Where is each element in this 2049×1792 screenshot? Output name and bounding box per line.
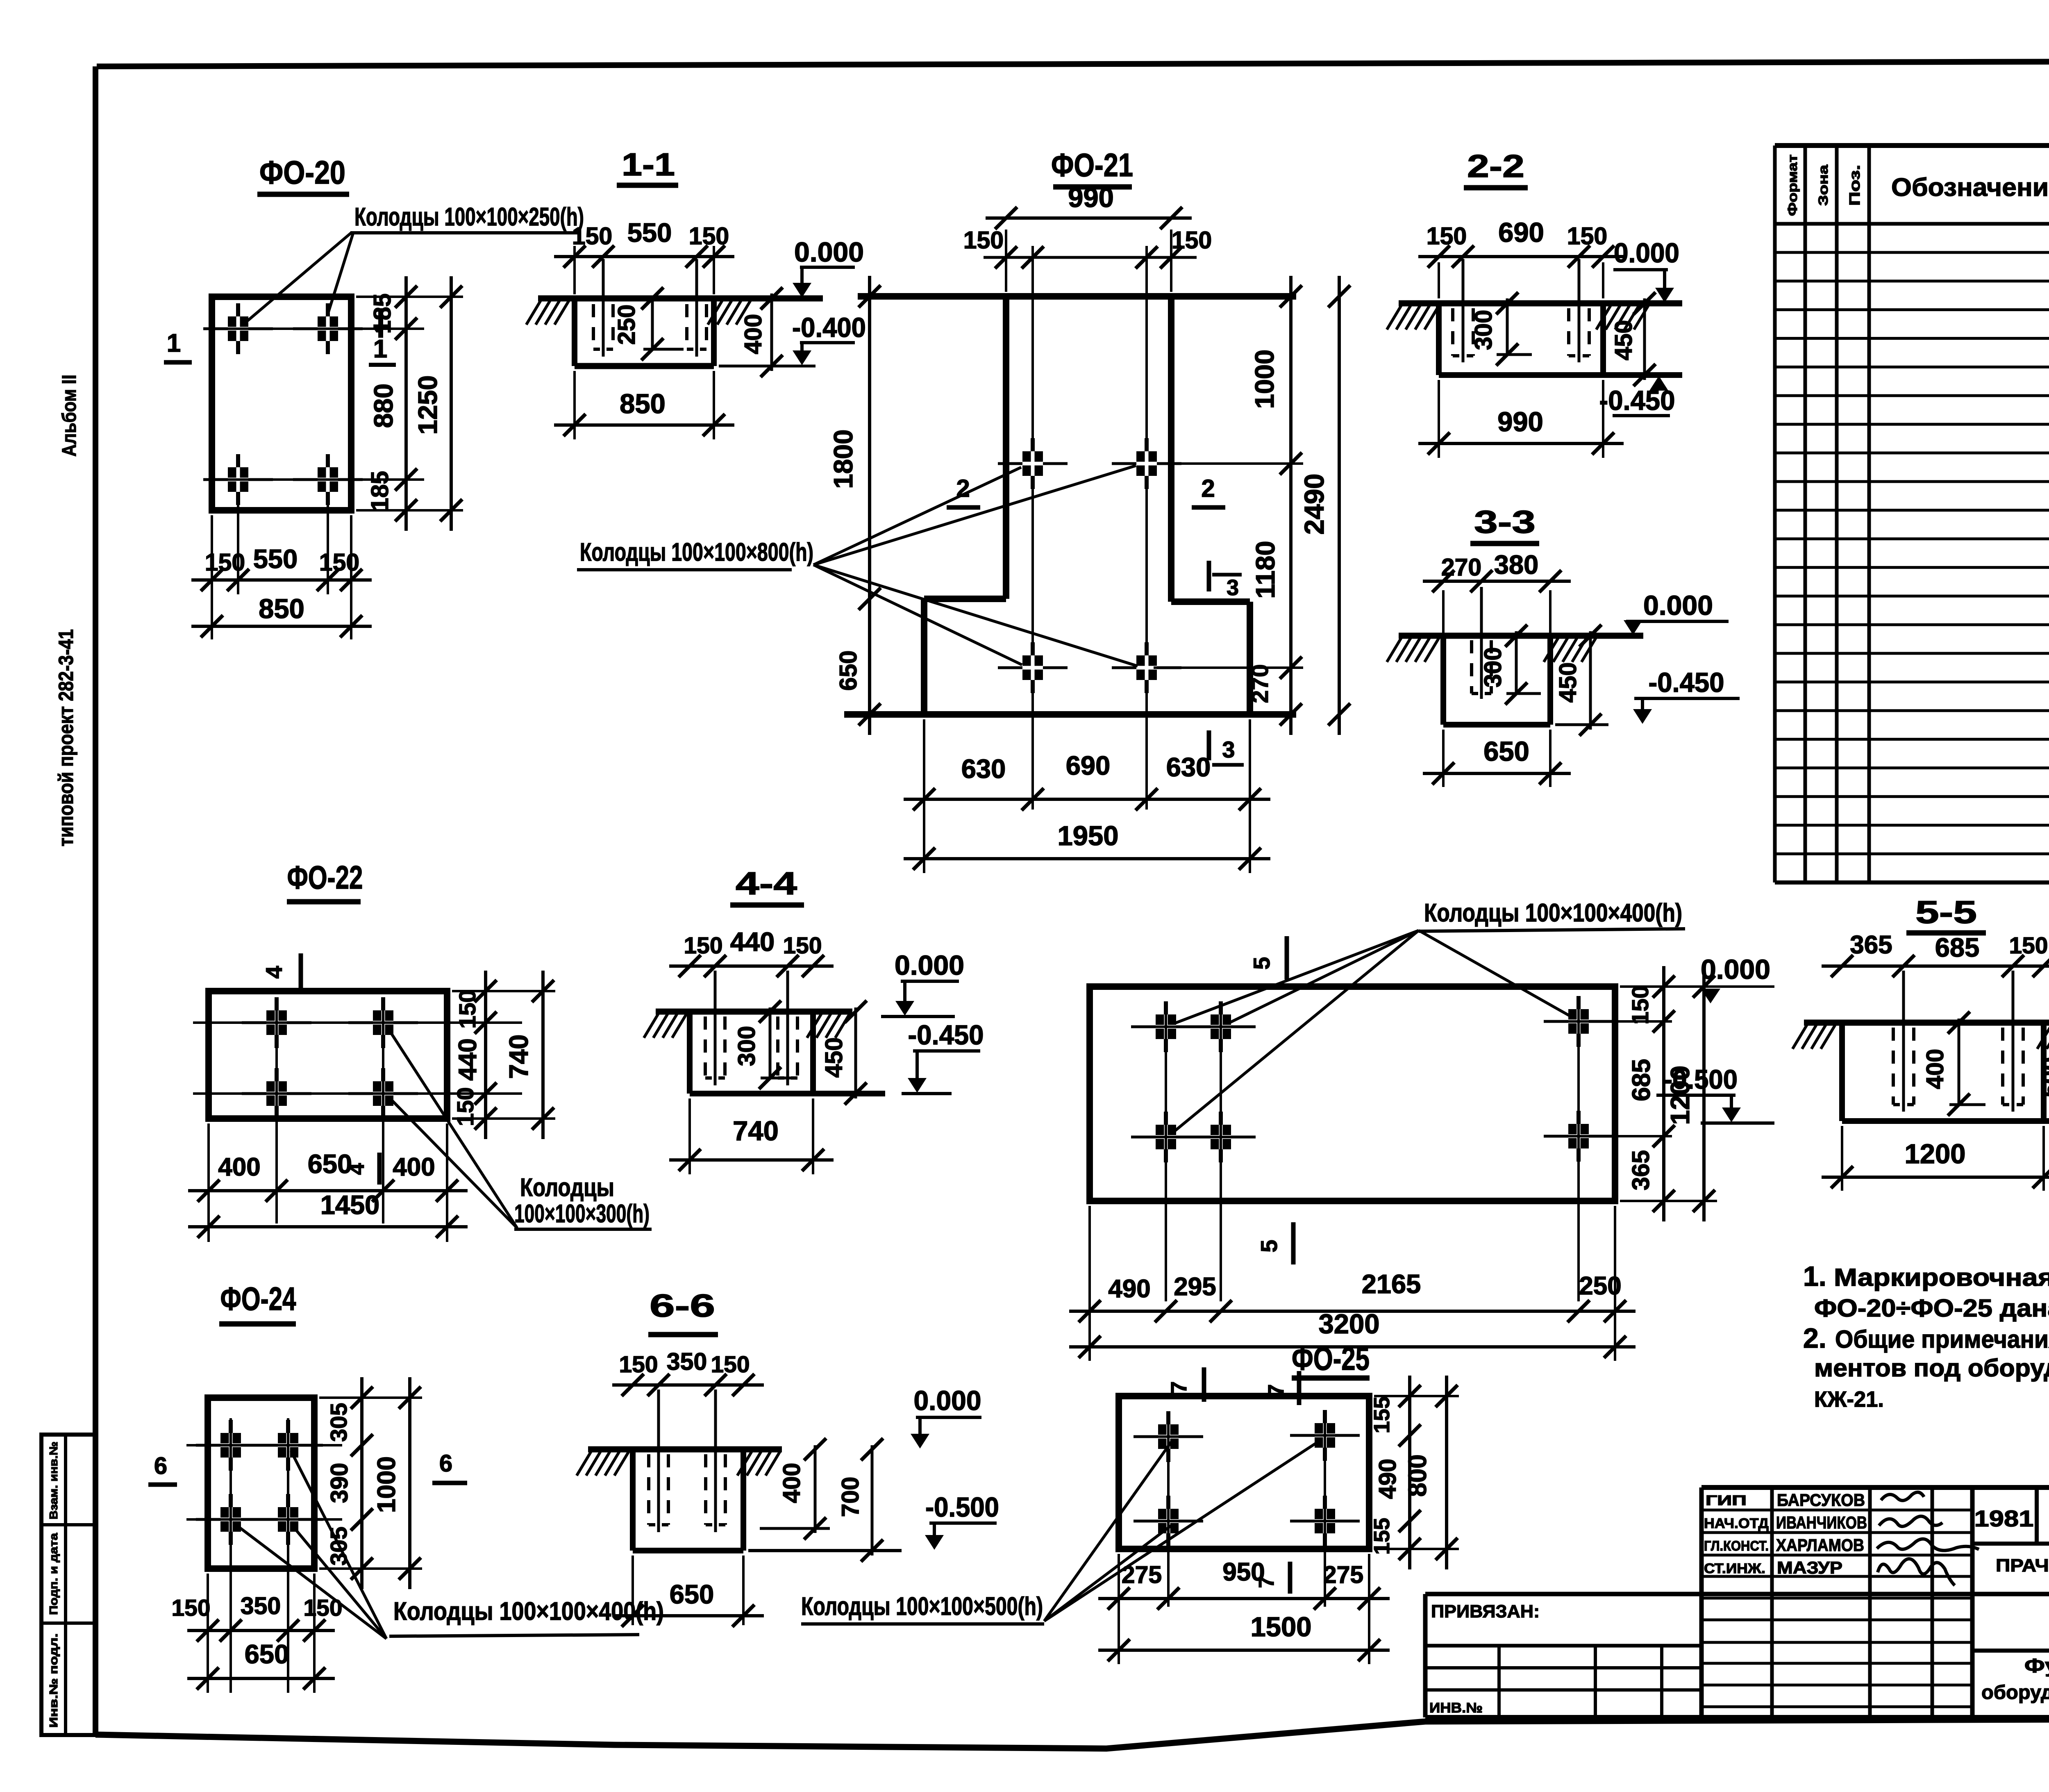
section 2-2 hatch left xyxy=(1387,306,1439,330)
svg-text:-0.500: -0.500 xyxy=(925,1492,999,1523)
title block sheet name 1 xyxy=(2024,1655,2049,1677)
label kolodtsy 100x100x400 fo24 xyxy=(389,1597,664,1636)
svg-text:0.000: 0.000 xyxy=(914,1385,981,1416)
section 3-3 dim 300 xyxy=(1479,625,1541,705)
svg-text:650: 650 xyxy=(670,1579,714,1609)
section 1-1 top extensions xyxy=(575,246,714,294)
FO-24 right extensions xyxy=(319,1398,422,1569)
svg-text:150: 150 xyxy=(452,1087,479,1126)
svg-text:850: 850 xyxy=(620,389,666,419)
foundation plan FO-24 outline xyxy=(208,1398,314,1569)
svg-text:3-3: 3-3 xyxy=(1474,504,1536,540)
svg-text:685: 685 xyxy=(1627,1059,1656,1101)
FO-22 right extensions xyxy=(452,991,555,1119)
svg-text:450: 450 xyxy=(1554,662,1581,703)
svg-text:2-2: 2-2 xyxy=(1467,148,1524,184)
FO-25 axes cols xyxy=(1168,1414,1325,1607)
svg-text:150: 150 xyxy=(171,1595,210,1621)
anchor well FO-21 bottom-right xyxy=(1112,642,1181,693)
signature 4 xyxy=(1878,1559,1955,1585)
svg-text:685: 685 xyxy=(1935,932,1979,962)
svg-text:1180: 1180 xyxy=(1250,541,1280,598)
svg-text:400: 400 xyxy=(740,314,767,354)
foundation FO-21 left column edge xyxy=(1003,296,1009,599)
svg-text:ФО-20: ФО-20 xyxy=(259,154,345,191)
svg-text:650: 650 xyxy=(835,650,862,691)
section 5-5 block xyxy=(1842,1023,2049,1121)
leader FO-24 a4 xyxy=(291,1524,386,1639)
svg-text:Альбом II: Альбом II xyxy=(59,375,80,457)
svg-text:690: 690 xyxy=(1066,750,1110,780)
section mark 7 mid xyxy=(1264,1371,1299,1405)
FO-23 right dim 1200 xyxy=(1665,966,1715,1221)
FO-22 bottom extensions xyxy=(209,1123,447,1242)
title FO-21 xyxy=(1051,147,1133,187)
FO-25 bottom dim 1500 xyxy=(1098,1612,1390,1661)
label kolodtsy 100x100x250 xyxy=(350,203,584,233)
svg-text:150: 150 xyxy=(619,1351,658,1378)
svg-text:150: 150 xyxy=(1627,985,1654,1024)
section 3-3 ground line xyxy=(1399,590,1643,725)
title block name Mazur xyxy=(1777,1558,1842,1577)
svg-text:1450: 1450 xyxy=(320,1190,380,1220)
level mark 0.000 sec 2-2 xyxy=(1613,238,1679,302)
svg-text:ментов под оборудование дан: ментов под оборудование даны на листе xyxy=(1814,1354,2049,1382)
section 2-2 ground line xyxy=(1399,300,1682,307)
title block sheet name 2 xyxy=(1981,1682,2049,1703)
section 1-1 dim 400 xyxy=(740,287,783,377)
svg-text:-0.450: -0.450 xyxy=(908,1020,984,1051)
section 6-6 block bottom ext xyxy=(748,1549,902,1552)
title 4-4 xyxy=(730,865,804,905)
svg-text:305: 305 xyxy=(326,1403,352,1442)
section 6-6 dim 700 xyxy=(837,1438,883,1562)
svg-text:БАРСУКОВ: БАРСУКОВ xyxy=(1777,1490,1865,1510)
anchor well FO-24 a4 xyxy=(253,1494,323,1545)
section 4-4 dim 300 xyxy=(733,1001,794,1089)
svg-text:Подп. и дата: Подп. и дата xyxy=(47,1533,60,1615)
section mark 5 top xyxy=(1249,936,1287,980)
foundation plan FO-25 outline xyxy=(1119,1396,1369,1549)
svg-text:740: 740 xyxy=(733,1116,779,1146)
svg-text:150: 150 xyxy=(1567,223,1607,250)
section 4-4 hatch left xyxy=(644,1014,686,1038)
svg-text:0.000: 0.000 xyxy=(1643,590,1713,621)
title block role gl konstr xyxy=(1704,1538,1769,1554)
signature 3 xyxy=(1877,1539,1979,1551)
section 6-6 hatch right xyxy=(737,1452,780,1476)
section 5-5 ground line xyxy=(1804,1020,2049,1026)
FO-24 right dim 1000 xyxy=(373,1377,421,1589)
svg-text:650: 650 xyxy=(245,1639,289,1669)
section 1-1 well left xyxy=(593,259,613,357)
svg-text:630: 630 xyxy=(1166,752,1211,782)
FO-25 right dim 155/490/155 xyxy=(1370,1376,1421,1569)
section 1-1 bottom extensions xyxy=(575,371,714,439)
svg-text:550: 550 xyxy=(253,544,298,574)
svg-text:СТ.ИНЖ.: СТ.ИНЖ. xyxy=(1704,1561,1765,1576)
svg-text:Зона: Зона xyxy=(1816,165,1831,206)
FO-22 right dim 740 xyxy=(504,971,554,1139)
title 2-2 xyxy=(1464,148,1528,188)
svg-text:295: 295 xyxy=(1174,1273,1216,1301)
svg-text:2.: 2. xyxy=(1803,1323,1826,1354)
svg-text:380: 380 xyxy=(1494,550,1538,580)
svg-text:Взам. инв.№: Взам. инв.№ xyxy=(47,1442,60,1519)
section 4-4 top dim 150/440/150 xyxy=(669,927,834,977)
svg-text:365: 365 xyxy=(1627,1150,1654,1190)
svg-text:5: 5 xyxy=(1256,1239,1282,1252)
margin text project 282-3-41 xyxy=(55,629,77,846)
leader FO-21 br xyxy=(813,565,1138,666)
leader FO-25 a3 xyxy=(1044,1526,1171,1621)
section 2-2 top extensions xyxy=(1439,262,1603,298)
svg-text:270: 270 xyxy=(1441,554,1481,581)
section 5-5 well right xyxy=(2003,971,2023,1112)
section 3-3 well xyxy=(1472,587,1491,699)
leader FO-23 a3 xyxy=(1170,930,1419,1135)
svg-text:-0.450: -0.450 xyxy=(1649,667,1724,698)
FO-24 bottom dim 150/350/150 xyxy=(171,1592,342,1642)
FO-22 bottom dim 1450 xyxy=(188,1190,468,1238)
level mark 0.000 sec 6-6 xyxy=(911,1385,981,1449)
FO-23 right extensions xyxy=(1620,987,1774,1201)
section 6-6 dim 400 xyxy=(778,1438,826,1540)
svg-text:ИНВ.№: ИНВ.№ xyxy=(1429,1700,1483,1716)
section mark 2 left xyxy=(947,475,980,507)
anchor well FO-20 a1 xyxy=(203,303,273,354)
FO-22 axis bottom row xyxy=(193,1092,522,1095)
section 6-6 top dim 150/350/150 xyxy=(612,1348,764,1396)
svg-text:0.000: 0.000 xyxy=(1614,238,1679,268)
svg-text:150: 150 xyxy=(783,932,822,959)
svg-text:ПРАЧЕЧНАЯ ПРОИЗВОДИТЕЛЬНОСТЬЮ: ПРАЧЕЧНАЯ ПРОИЗВОДИТЕЛЬНОСТЬЮ 5т. xyxy=(1996,1555,2049,1576)
svg-text:440: 440 xyxy=(730,927,775,957)
FO-24 bottom dim 650 xyxy=(187,1639,335,1690)
note line 1 xyxy=(1803,1261,2049,1292)
title FO-25 below fo23 xyxy=(1292,1340,1370,1378)
leader FO-22 tr xyxy=(387,1027,517,1228)
section 2-2 well left xyxy=(1453,259,1473,362)
foundation FO-21 right step xyxy=(1171,602,1250,714)
FO-24 bottom extensions xyxy=(208,1574,314,1693)
svg-text:650: 650 xyxy=(1483,736,1529,767)
anchor well FO-24 a3 xyxy=(196,1494,266,1545)
section 3-3 bottom dim 650 xyxy=(1423,736,1571,785)
svg-text:740: 740 xyxy=(504,1035,534,1079)
svg-text:400: 400 xyxy=(778,1463,805,1503)
svg-text:ПРИВЯЗАН:: ПРИВЯЗАН: xyxy=(1431,1601,1540,1621)
svg-text:150: 150 xyxy=(2009,932,2048,959)
svg-text:1500: 1500 xyxy=(1250,1612,1311,1642)
table header format xyxy=(1785,155,1800,216)
FO-25 bottom dim 275/950/275 xyxy=(1098,1558,1390,1610)
section 5-5 dim 500 xyxy=(2037,1012,2049,1132)
leader FO-23 a4 xyxy=(1419,930,1575,1019)
FO-23 bottom dim 3200 xyxy=(1069,1309,1636,1358)
FO-20 right dim 185/880/185 xyxy=(366,276,417,531)
section mark 6 left xyxy=(148,1453,177,1485)
sheet frame bottom border xyxy=(95,1718,2049,1749)
svg-text:Маркировочная схема фундамен: Маркировочная схема фундаментов xyxy=(1834,1264,2049,1291)
svg-text:4: 4 xyxy=(345,1163,369,1175)
section 3-3 dim 450 xyxy=(1554,625,1601,736)
section 1-1 dim 250 well depth xyxy=(613,287,684,360)
anchor well FO-25 a3 xyxy=(1134,1496,1203,1546)
section 3-3 block xyxy=(1443,636,1550,725)
FO-20 right dim extension lines xyxy=(356,297,463,510)
svg-text:150: 150 xyxy=(1427,223,1467,250)
FO-21 top extensions above xyxy=(1006,230,1171,292)
section mark 1 left xyxy=(164,329,192,362)
svg-text:ФО-21: ФО-21 xyxy=(1051,147,1133,183)
FO-23 axes right anchors xyxy=(1545,998,1672,1301)
section 4-4 ground line xyxy=(656,1009,852,1015)
svg-text:ГИП: ГИП xyxy=(1706,1493,1747,1508)
foundation FO-21 right column edge xyxy=(1168,296,1174,602)
svg-text:7: 7 xyxy=(1167,1381,1191,1394)
svg-text:365: 365 xyxy=(1850,931,1892,959)
section mark 4 top xyxy=(261,953,301,990)
axis line bottom row FO-20 xyxy=(218,478,424,481)
section 1-1 block xyxy=(575,298,714,366)
anchor well FO-22 a3 xyxy=(242,1068,311,1119)
level mark -0.450 sec 3-3 xyxy=(1633,667,1740,724)
FO-25 right dim 800 xyxy=(1404,1376,1458,1569)
section mark 2 right xyxy=(1192,475,1225,507)
leader FO-25 a2 xyxy=(1044,1440,1322,1621)
svg-text:3: 3 xyxy=(1227,575,1239,600)
FO-20 bottom dim 150/550/150 xyxy=(191,544,372,591)
anchor well FO-23 a4 xyxy=(1186,1112,1256,1162)
FO-22 right dim 150/440/150 xyxy=(452,971,497,1139)
section 6-6 block xyxy=(633,1449,743,1551)
section 1-1 block bottom extension xyxy=(719,365,816,368)
svg-text:Поз.: Поз. xyxy=(1846,165,1863,206)
section 3-3 hatch left xyxy=(1387,638,1439,662)
svg-text:300: 300 xyxy=(733,1026,760,1066)
FO-24 axes cols xyxy=(231,1418,288,1693)
FO-25 right extensions xyxy=(1374,1396,1459,1549)
svg-text:300: 300 xyxy=(1470,310,1497,350)
left stamp mini table xyxy=(41,1435,95,1735)
svg-text:Обозначение: Обозначение xyxy=(1891,173,2049,202)
title FO-20 xyxy=(257,154,349,194)
svg-text:ХАРЛАМОВ: ХАРЛАМОВ xyxy=(1776,1535,1864,1555)
leader FO-21 bl xyxy=(813,565,1022,665)
section 1-1 bottom dim 850 xyxy=(554,389,734,436)
section 6-6 ground line xyxy=(588,1446,782,1453)
svg-text:150: 150 xyxy=(572,223,612,250)
section mark 1 right xyxy=(369,308,396,365)
svg-text:250: 250 xyxy=(613,305,640,345)
svg-text:150: 150 xyxy=(319,549,359,576)
FO-23 bottom dim 490/295/2165/250 xyxy=(1069,1269,1636,1322)
section 5-5 hatch left xyxy=(1792,1025,1835,1049)
svg-text:4: 4 xyxy=(261,966,287,978)
anchor well FO-24 a1 xyxy=(196,1420,266,1471)
svg-text:155: 155 xyxy=(1370,1396,1394,1433)
svg-text:ГЛ.КОНСТ.: ГЛ.КОНСТ. xyxy=(1704,1538,1769,1554)
note line 3 xyxy=(1803,1323,2049,1354)
section 3-3 bottom extensions xyxy=(1443,730,1550,787)
svg-text:350: 350 xyxy=(667,1348,707,1375)
section 3-3 hatch right xyxy=(1544,638,1596,662)
svg-text:150: 150 xyxy=(205,549,245,576)
level mark -0.450 sec 2-2 xyxy=(1599,376,1675,416)
svg-text:Инв.№ подл.: Инв.№ подл. xyxy=(47,1633,60,1728)
foundation plan FO-22 outline xyxy=(209,991,447,1119)
FO-23 bottom extensions xyxy=(1090,1206,1615,1361)
svg-text:3200: 3200 xyxy=(1318,1309,1379,1339)
leader to well top-right xyxy=(326,233,353,321)
anchor well FO-22 a1 xyxy=(242,997,311,1048)
FO-21 dim 150 right xyxy=(1102,227,1212,268)
margin text Album II xyxy=(59,375,80,457)
section 6-6 well bottom ref xyxy=(760,1527,830,1530)
FO-21 dim 150 left xyxy=(963,227,1102,268)
section 1-1 well right xyxy=(687,259,706,357)
svg-text:ФО-20÷ФО-25 дана на листе К: ФО-20÷ФО-25 дана на листе КЖ-19. xyxy=(1814,1294,2049,1322)
section 1-1 ground line xyxy=(538,296,823,302)
sheet frame top border xyxy=(97,61,2049,66)
title block role GIP xyxy=(1706,1493,1747,1508)
title block privyazan xyxy=(1431,1601,1540,1621)
svg-text:6-6: 6-6 xyxy=(650,1287,715,1324)
section 4-4 well right xyxy=(778,971,797,1085)
svg-text:150: 150 xyxy=(711,1351,750,1378)
anchor well FO-20 a3 xyxy=(203,454,273,505)
section 1-1 top dim 150/550/150 xyxy=(554,218,734,268)
anchor well FO-23 a1 xyxy=(1131,1001,1201,1052)
svg-text:Колодцы 100×100×800(h): Колодцы 100×100×800(h) xyxy=(580,538,813,566)
svg-text:880: 880 xyxy=(368,384,398,428)
FO-20 bottom extension lines xyxy=(212,500,351,639)
svg-text:Колодцы 100×100×250(h): Колодцы 100×100×250(h) xyxy=(354,203,584,231)
section 5-5 dim 400 xyxy=(1922,1012,1985,1116)
svg-text:1-1: 1-1 xyxy=(622,146,675,182)
section 5-5 bottom extensions xyxy=(1842,1126,2044,1191)
FO-25 axes rows xyxy=(1135,1435,1356,1521)
section 2-2 top dim 150/690/150 xyxy=(1418,217,1624,268)
label kolodtsy 100x100x800 xyxy=(577,538,813,570)
anchor well FO-20 a2 xyxy=(293,303,363,354)
leader FO-22 br xyxy=(388,1097,517,1228)
title block year 1981 xyxy=(1974,1505,2034,1531)
title block role st inzh xyxy=(1704,1561,1765,1576)
svg-text:2490: 2490 xyxy=(1299,473,1330,534)
svg-text:Колодцы: Колодцы xyxy=(520,1173,614,1202)
section 4-4 hatch right xyxy=(807,1014,850,1038)
foundation plan FO-20 outline xyxy=(212,297,351,510)
svg-text:490: 490 xyxy=(1108,1275,1150,1303)
svg-text:270: 270 xyxy=(1247,664,1273,703)
svg-text:800: 800 xyxy=(1404,1454,1432,1496)
svg-text:Колодцы 100×100×500(h): Колодцы 100×100×500(h) xyxy=(801,1592,1043,1621)
title block name Ivanchikov xyxy=(1776,1513,1867,1532)
svg-text:1: 1 xyxy=(167,329,181,357)
svg-text:1800: 1800 xyxy=(828,430,858,489)
left stamp text vzam xyxy=(47,1442,60,1519)
anchor well FO-21 top-right xyxy=(1112,438,1181,489)
anchor well FO-23 a2 xyxy=(1186,1001,1256,1052)
svg-text:0.000: 0.000 xyxy=(895,950,964,981)
level mark -0.500 fo23 xyxy=(1656,1064,1774,1123)
svg-text:400: 400 xyxy=(393,1153,435,1181)
FO-24 right dim 305/390/305 xyxy=(326,1377,373,1589)
svg-text:2165: 2165 xyxy=(1362,1269,1421,1299)
title FO-22 xyxy=(287,859,363,902)
svg-text:1: 1 xyxy=(373,335,387,363)
svg-text:300: 300 xyxy=(1479,647,1506,687)
title block name Kharlamov xyxy=(1776,1535,1864,1555)
FO-22 bottom dim 400/650/400 xyxy=(188,1149,468,1202)
svg-text:Колодцы 100×100×400(h): Колодцы 100×100×400(h) xyxy=(1424,899,1682,927)
table header poz xyxy=(1846,165,1863,206)
FO-21 bottom dim 1950 xyxy=(904,821,1270,870)
svg-text:6: 6 xyxy=(439,1450,452,1477)
title 1-1 xyxy=(617,146,678,185)
svg-text:275: 275 xyxy=(1122,1561,1162,1588)
level mark 0.000 sec 1-1 xyxy=(793,237,864,298)
svg-text:450: 450 xyxy=(820,1037,847,1078)
section 2-2 dim 450 xyxy=(1610,292,1656,386)
FO-22 axis top row xyxy=(193,1021,522,1024)
svg-text:150: 150 xyxy=(684,932,722,959)
section 4-4 well left xyxy=(705,971,725,1085)
section mark 7 top xyxy=(1167,1367,1204,1402)
svg-text:Формат: Формат xyxy=(1785,155,1800,216)
signature 2 xyxy=(1879,1516,1942,1526)
svg-text:2: 2 xyxy=(956,475,970,502)
section 1-1 ground hatch left xyxy=(526,301,569,325)
title FO-24 xyxy=(219,1280,296,1324)
foundation FO-21 bottom edge xyxy=(844,711,1296,718)
signature 1 xyxy=(1881,1492,1924,1501)
svg-text:5-5: 5-5 xyxy=(1915,894,1977,930)
svg-text:490: 490 xyxy=(1374,1459,1401,1499)
leader to well top-left xyxy=(246,233,351,322)
FO-21 right dim 1000/1180/270 xyxy=(1247,276,1302,735)
label kolodtsy 100x100x400 fo23 xyxy=(1419,899,1685,931)
anchor well FO-24 a2 xyxy=(253,1420,323,1471)
svg-text:ФО-22: ФО-22 xyxy=(287,859,363,896)
svg-text:250: 250 xyxy=(1579,1272,1621,1300)
anchor well FO-23 a3 xyxy=(1131,1112,1201,1162)
svg-text:350: 350 xyxy=(241,1592,281,1619)
label kolodtsy 100x100x300 xyxy=(514,1173,652,1229)
anchor well FO-25 a2 xyxy=(1290,1410,1360,1461)
leader FO-25 a1 xyxy=(1044,1442,1171,1621)
section mark 7 bottom xyxy=(1255,1562,1290,1594)
anchor well FO-21 top-left xyxy=(998,438,1068,489)
FO-21 axes to right dims xyxy=(1154,464,1303,668)
svg-text:550: 550 xyxy=(627,218,672,248)
svg-text:400: 400 xyxy=(1922,1049,1949,1089)
svg-text:НАЧ.ОТД: НАЧ.ОТД xyxy=(1704,1516,1769,1531)
section 2-2 block xyxy=(1439,303,1682,375)
foundation FO-21 top edge xyxy=(858,293,1296,300)
title block grid xyxy=(1425,1487,2049,1717)
FO-24 axes rows xyxy=(186,1445,342,1519)
anchor well FO-22 a4 xyxy=(348,1068,418,1119)
table header oboznachenie xyxy=(1891,173,2049,202)
FO-21 left dim 1800/650 xyxy=(828,276,881,735)
svg-text:Фундаменты под: Фундаменты под xyxy=(2024,1655,2049,1677)
svg-text:100×100×300(h): 100×100×300(h) xyxy=(514,1200,650,1228)
FO-22 axis col left xyxy=(275,1002,278,1223)
svg-text:МАЗУР: МАЗУР xyxy=(1777,1558,1842,1577)
